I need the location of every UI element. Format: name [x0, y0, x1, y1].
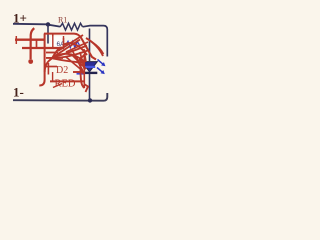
red wire fan curve 5 [53, 50, 90, 58]
red wire top horizontal with corner diagonal [44, 34, 96, 60]
LED D2 cathode bar [82, 72, 98, 74]
red wire dash right of stem [46, 66, 57, 68]
red wire braid stroke b [66, 42, 88, 52]
red wire diagonal through LED [76, 56, 84, 74]
red wire box right edge over [63, 36, 65, 49]
wire top from terminal 1+ to resistor R1 [13, 24, 60, 27]
red wire fan curve 3 [53, 40, 81, 58]
red wire bracket left of RED [52, 72, 54, 81]
red wire tick at left end [15, 36, 17, 44]
red wire horizontal upper-left [15, 39, 45, 41]
wire from node A down [47, 24, 49, 43]
red wire funnel stroke [72, 50, 83, 70]
red wire braid stroke a [58, 35, 83, 51]
wire right-bottom segment up from bottom corner [13, 93, 107, 101]
red wire fan curve 6 [53, 59, 84, 63]
red wire short dash right of D2 [73, 71, 83, 73]
red wire fan curve 4 [53, 46, 88, 58]
red wire vertical left of LED [81, 57, 85, 88]
red wire vertical below knot [47, 63, 49, 75]
red wire arc to lower right [86, 38, 103, 56]
red wire squiggle bottom [84, 84, 88, 92]
red wire stem with hook top [31, 28, 35, 59]
LED D2 triangle [82, 62, 98, 72]
red wire short horizontal mid [46, 52, 58, 54]
red wire slash bottom-left [53, 84, 62, 88]
red wire diagonal to cathode b [71, 54, 86, 69]
red wire corner join to vertical [45, 58, 53, 72]
red wire box left edge [52, 34, 54, 49]
red wire long vertical with bottom hook [39, 34, 44, 86]
red wire tick after RED [83, 55, 85, 88]
red wire blob end [28, 59, 33, 64]
junction node A on top wire [46, 22, 50, 26]
red wire vertical link between horizontals [36, 40, 38, 49]
wire from R1 right end to right edge with corner down [83, 26, 108, 57]
red wire horizontal above D2 [46, 57, 63, 59]
red wire cross diagonal [77, 54, 86, 63]
red wire fan arc 1 [53, 43, 88, 57]
red wire horizontal mid-left [22, 47, 64, 49]
wire LED cathode down to node B [89, 74, 91, 100]
red wire box left edge over [52, 34, 54, 49]
resistor R1 [60, 23, 83, 30]
red wire diagonal over LED left [80, 52, 85, 70]
red wire diagonal to cathode a [66, 57, 84, 72]
wire LED anode from top [89, 29, 91, 62]
red wire diagonal over LED left b [84, 49, 86, 62]
LED arrow 1 [98, 60, 104, 65]
red wire box right edge [63, 38, 65, 49]
value label box [51, 36, 63, 46]
red wire arc to lower right b [92, 42, 104, 54]
svg-text:D2: D2 [56, 65, 68, 76]
junction node B on bottom wire [88, 98, 92, 102]
red wire strikethrough RED [50, 80, 84, 82]
LED D2 blue stripe [84, 66, 95, 68]
LED D2 cathode bar blue end [77, 73, 85, 75]
svg-text:1-: 1- [13, 85, 24, 100]
svg-text:RED: RED [55, 78, 76, 89]
resistor (small blue) [66, 41, 79, 47]
LED arrow 2 [97, 68, 103, 73]
red wire fan arc 2 [53, 54, 86, 62]
